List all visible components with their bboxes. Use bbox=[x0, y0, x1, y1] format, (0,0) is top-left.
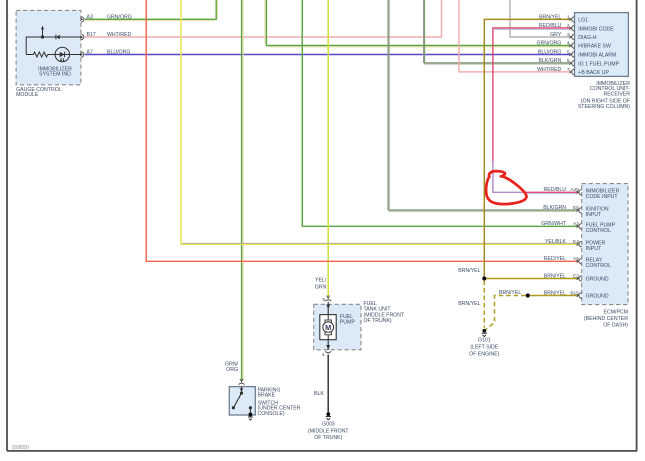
svg-text:YEL/: YEL/ bbox=[315, 277, 327, 283]
svg-text:IMMOBI CODE: IMMOBI CODE bbox=[578, 26, 614, 32]
ECM pin E4 POWER INPUT bbox=[545, 239, 606, 252]
ground G003 bbox=[326, 412, 330, 416]
svg-text:IMMOBI ALARM: IMMOBI ALARM bbox=[578, 53, 616, 59]
svg-text:G003: G003 bbox=[322, 421, 335, 427]
fuel tank unit box bbox=[314, 304, 361, 350]
svg-text:STEERING COLUMN): STEERING COLUMN) bbox=[578, 104, 630, 110]
fuel pump pin 4 bbox=[325, 351, 331, 352]
wire BRN/YEL to ECM B15 GROUND bbox=[528, 295, 578, 297]
svg-text:GROUND: GROUND bbox=[586, 294, 609, 300]
svg-text:G101: G101 bbox=[478, 337, 491, 343]
svg-text:RECEIVER: RECEIVER bbox=[603, 91, 630, 97]
wire A3 GRN/ORG bbox=[85, 0, 217, 19]
svg-text:DIAG-H: DIAG-H bbox=[578, 35, 596, 41]
svg-text:BLK/GRN: BLK/GRN bbox=[543, 205, 566, 211]
svg-text:RED/BLU: RED/BLU bbox=[544, 187, 567, 193]
svg-text:BLU/ORG: BLU/ORG bbox=[107, 49, 130, 55]
ECM pin A2 FUEL PUMP CONTROL bbox=[541, 221, 615, 234]
red annotation scribble bbox=[486, 171, 526, 204]
wire GRY to DIAG-H pin 3 bbox=[510, 0, 570, 37]
svg-text:YEL/BLK: YEL/BLK bbox=[545, 239, 567, 245]
svg-text:IG 1 FUEL PUMP: IG 1 FUEL PUMP bbox=[578, 61, 619, 67]
svg-text:7: 7 bbox=[567, 67, 570, 73]
ground at parking brake switch bbox=[248, 413, 252, 417]
svg-text:E4: E4 bbox=[573, 239, 579, 245]
svg-text:GRN/ORG: GRN/ORG bbox=[107, 14, 132, 20]
svg-text:OF DASH): OF DASH) bbox=[603, 322, 628, 328]
svg-text:4: 4 bbox=[567, 41, 570, 47]
fuel pump lower lead with arrow bbox=[327, 340, 329, 350]
ground G101 bbox=[482, 329, 486, 333]
svg-text:INPUT: INPUT bbox=[586, 246, 602, 252]
ECM pin A25 IMMOBILIZER CODE INPUT bbox=[544, 187, 620, 200]
wire WHT/RED to +B BACK UP pin 7 bbox=[459, 0, 570, 72]
ECM pin A5 RELAY CONTROL bbox=[544, 256, 611, 269]
arrow up power symbol bbox=[42, 29, 44, 37]
svg-text:GRY: GRY bbox=[550, 32, 562, 38]
svg-text:E5: E5 bbox=[573, 205, 579, 211]
svg-text:CONTROL: CONTROL bbox=[586, 228, 611, 234]
receiver pin 1 LG1 bbox=[539, 14, 588, 23]
svg-text:OF ENGINE): OF ENGINE) bbox=[469, 352, 500, 358]
receiver pin 4 H/BRAKE SW bbox=[537, 41, 611, 50]
parking brake switch pin bbox=[239, 383, 245, 384]
svg-text:BRN/YEL: BRN/YEL bbox=[499, 290, 521, 296]
svg-text:BRN/YEL: BRN/YEL bbox=[544, 273, 566, 279]
svg-text:BRN/YEL: BRN/YEL bbox=[544, 290, 566, 296]
immobilizer control unit receiver box bbox=[575, 13, 629, 77]
svg-text:B15: B15 bbox=[570, 290, 579, 296]
fuel pump internal lead with arrow bbox=[327, 302, 329, 315]
svg-text:ORG: ORG bbox=[226, 367, 238, 373]
wire BRN/YEL dashed from B15 to G101 bbox=[486, 296, 526, 330]
wire BRN/YEL to ECM E3 GROUND bbox=[484, 278, 577, 280]
svg-text:A25: A25 bbox=[570, 187, 579, 193]
svg-text:(LEFT SIDE: (LEFT SIDE bbox=[470, 344, 498, 350]
receiver pin 5 IMMOBI ALARM bbox=[538, 49, 616, 58]
wire BLK to G003 bbox=[327, 354, 329, 412]
wire RED/BLU from IMMOBI CODE pin 2 bbox=[493, 28, 570, 161]
wire GRN/ORG to H/BRAKE SW pin 4 bbox=[266, 0, 570, 46]
svg-text:(MIDDLE FRONT: (MIDDLE FRONT bbox=[308, 429, 349, 435]
parking brake switch box bbox=[229, 387, 255, 415]
svg-text:BLK: BLK bbox=[314, 391, 324, 397]
wire BLK/GRN to IG 1 FUEL PUMP pin 6 bbox=[424, 0, 571, 63]
svg-text:2: 2 bbox=[567, 23, 570, 29]
svg-text:RED/YEL: RED/YEL bbox=[544, 256, 566, 262]
wire BRN/YEL dashed to G101 bbox=[483, 281, 485, 328]
svg-text:5: 5 bbox=[322, 297, 325, 303]
svg-text:5: 5 bbox=[567, 49, 570, 55]
svg-text:168650: 168650 bbox=[12, 445, 29, 451]
wire GRN/WHT to ECM A2 bbox=[302, 0, 577, 226]
switch S1 bbox=[241, 387, 243, 391]
node junction BRN/YEL E3 bbox=[482, 276, 486, 280]
svg-text:LG1: LG1 bbox=[578, 18, 588, 24]
svg-text:6: 6 bbox=[567, 58, 570, 64]
svg-text:WHT/RED: WHT/RED bbox=[107, 32, 131, 38]
receiver pin 6 IG 1 FUEL PUMP bbox=[539, 58, 620, 67]
fuel pump motor M1 bbox=[320, 315, 336, 340]
wire GRN/ORG to parking brake switch bbox=[241, 0, 243, 381]
svg-text:WHT/RED: WHT/RED bbox=[537, 67, 561, 73]
svg-text:GRN/ORG: GRN/ORG bbox=[537, 41, 562, 47]
svg-text:E3: E3 bbox=[573, 273, 579, 279]
svg-text:GROUND: GROUND bbox=[586, 277, 609, 283]
svg-text:A5: A5 bbox=[573, 256, 579, 262]
wire YEL/GRN to fuel pump bbox=[327, 0, 329, 298]
svg-text:GRN/WHT: GRN/WHT bbox=[541, 221, 567, 227]
gauge internal wire upper branch bbox=[26, 37, 81, 55]
svg-text:OF TRUNK): OF TRUNK) bbox=[314, 435, 342, 441]
LED indicator lamp bbox=[55, 47, 69, 61]
svg-text:3: 3 bbox=[567, 32, 570, 38]
svg-text:+B BACK UP: +B BACK UP bbox=[578, 70, 609, 76]
pin B17 connector bbox=[81, 34, 84, 39]
ECM pin E3 GROUND bbox=[544, 273, 609, 282]
wire A7 BLU/ORG bbox=[85, 54, 571, 56]
svg-text:BLK/GRN: BLK/GRN bbox=[539, 58, 562, 64]
receiver pin 7 +B BACK UP bbox=[537, 67, 609, 76]
svg-text:GRN: GRN bbox=[315, 285, 327, 291]
svg-text:SYSTEM IND: SYSTEM IND bbox=[39, 72, 71, 78]
svg-text:A2: A2 bbox=[573, 221, 579, 227]
svg-text:RED/BLU: RED/BLU bbox=[539, 23, 562, 29]
svg-text:1: 1 bbox=[567, 14, 570, 20]
ECM pin E5 IGNITION INPUT bbox=[543, 205, 609, 218]
svg-text:BRN/YEL: BRN/YEL bbox=[458, 268, 480, 274]
svg-text:BRAKE: BRAKE bbox=[258, 393, 276, 399]
svg-text:OF TRUNK): OF TRUNK) bbox=[364, 318, 392, 324]
pin A3 connector bbox=[81, 17, 84, 22]
gauge control module box bbox=[16, 10, 81, 84]
svg-text:MODULE: MODULE bbox=[16, 92, 39, 98]
svg-text:BRN/YEL: BRN/YEL bbox=[458, 301, 480, 307]
svg-text:CONSOLE): CONSOLE) bbox=[258, 411, 285, 417]
svg-text:4: 4 bbox=[322, 352, 325, 358]
svg-text:M: M bbox=[325, 323, 331, 332]
svg-text:H/BRAKE SW: H/BRAKE SW bbox=[578, 44, 611, 50]
svg-text:BRN/YEL: BRN/YEL bbox=[539, 14, 561, 20]
wire BRN/YEL from LG1 pin 1 bbox=[484, 19, 570, 278]
svg-text:ECM/PCM: ECM/PCM bbox=[604, 310, 629, 316]
wire YEL/BLK to ECM E4 bbox=[181, 0, 578, 244]
svg-text:BLU/ORG: BLU/ORG bbox=[538, 49, 561, 55]
receiver pin 3 DIAG-H bbox=[550, 32, 597, 41]
ECM/PCM box bbox=[582, 184, 628, 305]
wire B17 WHT/RED bbox=[85, 0, 442, 37]
svg-text:(BEHIND CENTER: (BEHIND CENTER bbox=[584, 316, 628, 322]
svg-text:CODE INPUT: CODE INPUT bbox=[586, 194, 619, 200]
wire BLK/GRN to ECM E5 bbox=[388, 0, 578, 210]
wire RED/YEL to ECM A5 bbox=[146, 0, 577, 261]
receiver pin 2 IMMOBI CODE bbox=[539, 23, 614, 32]
svg-text:PUMP: PUMP bbox=[340, 320, 356, 326]
pin A7 connector bbox=[81, 52, 84, 57]
resistor R1 bbox=[33, 52, 47, 57]
diode D1 bbox=[56, 35, 60, 39]
svg-text:CONTROL: CONTROL bbox=[586, 263, 611, 269]
svg-text:INPUT: INPUT bbox=[586, 212, 602, 218]
gauge internal wire lower branch bbox=[26, 54, 33, 56]
ECM pin B15 GROUND bbox=[544, 290, 609, 299]
node junction BRN/YEL B15 bbox=[526, 293, 530, 297]
node junction in gauge bbox=[41, 35, 44, 38]
